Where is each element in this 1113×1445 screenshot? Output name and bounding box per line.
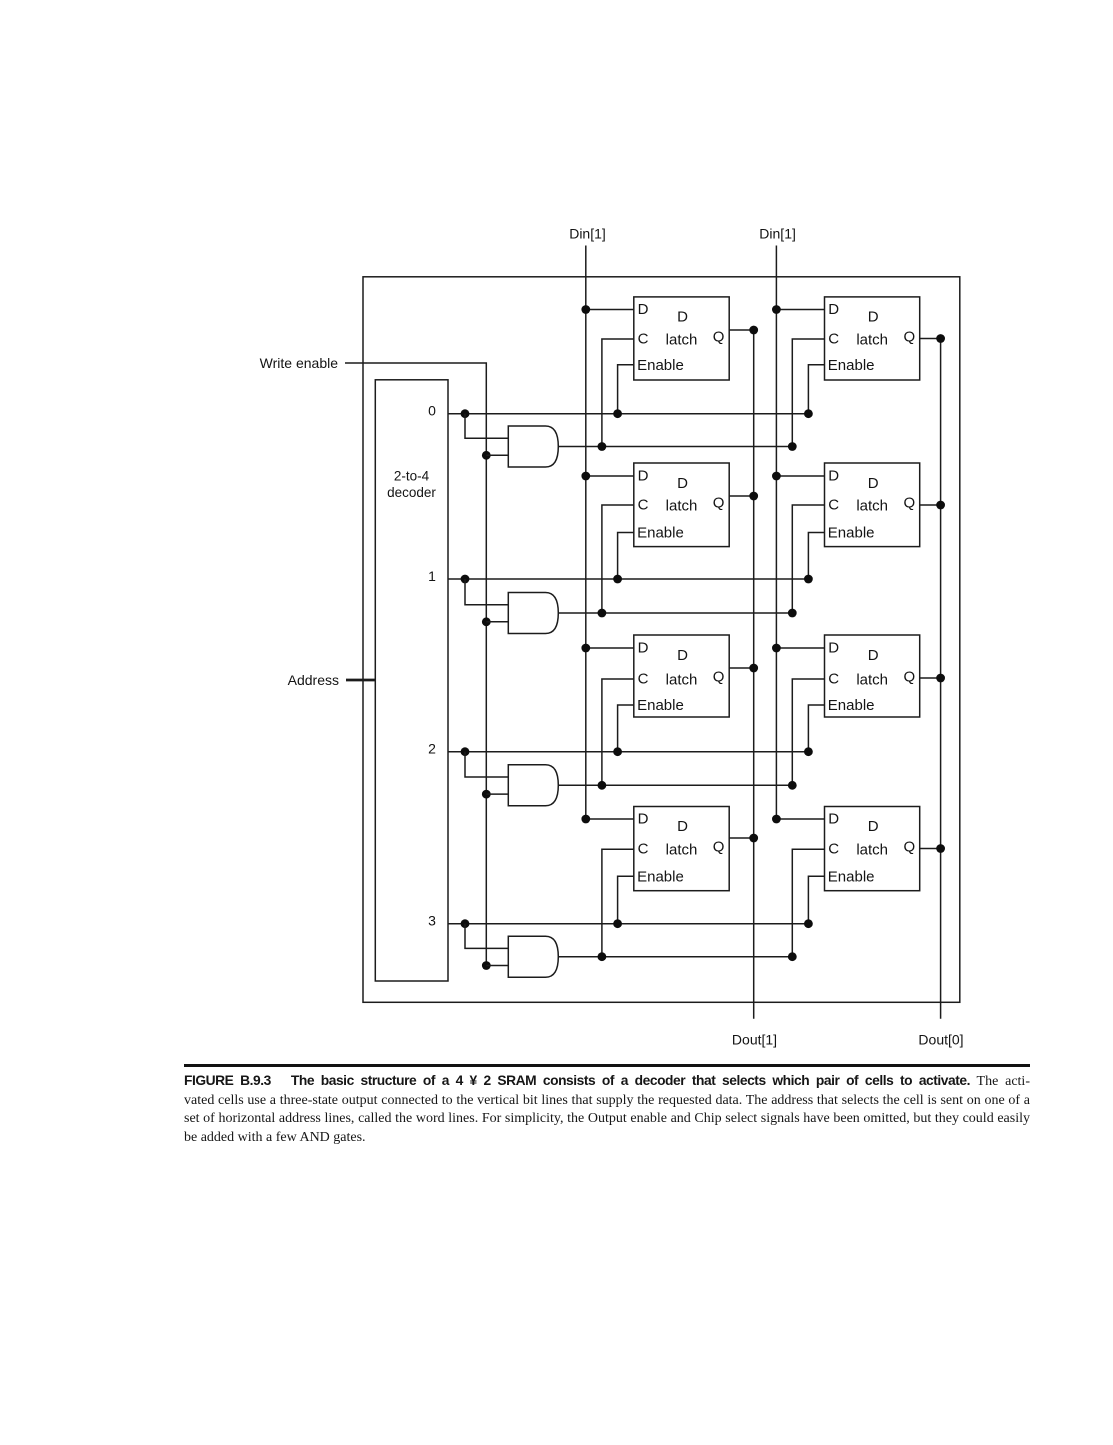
junction: Din tap for U2 [772,305,781,314]
svg-text:decoder: decoder [387,485,436,500]
junction: Din tap for U4 [772,472,781,481]
U6 pin Enable [828,697,875,714]
wire: Din to U1 D [586,309,634,311]
wire: row select to U6 C [792,679,824,785]
svg-text:D: D [638,811,649,828]
wire: row select to U3 C [602,505,634,613]
svg-text:Write enable: Write enable [260,355,339,371]
wire: Din to U4 D [776,475,824,477]
wire: G2 output (row select 1) [558,612,792,614]
wire: U6 Q to Dout [920,677,941,679]
svg-text:D: D [677,647,688,664]
svg-text:Address: Address [288,672,339,688]
svg-text:latch: latch [666,671,698,688]
junction: row select to U4 C [788,609,797,618]
D latch U7 [634,807,729,891]
wire: Din bit line 1 (vertical) [585,246,587,820]
U7 pin C [638,841,649,858]
D latch U4 [825,463,920,547]
U7 pin D [638,811,649,828]
junction: row select to U2 C [788,442,797,451]
U2 pin Enable [828,357,875,374]
wire: word line to U7 Enable [618,876,634,923]
U8 pin Enable [828,869,875,886]
U1 pin Enable [637,357,684,374]
U3 pin Enable [637,525,684,542]
svg-text:D: D [638,468,649,485]
wire: row select to U1 C [602,339,634,447]
U7 pin Q [713,839,725,856]
U3 pin Q [713,495,725,512]
U1 pin C [638,331,649,348]
svg-text:D: D [828,640,839,657]
junction: Din tap for U3 [581,472,590,481]
wire: Din to U2 D [776,309,824,311]
U5 label "D latch" [666,647,698,688]
U1 label "D latch" [666,309,698,349]
junction: row select to U1 C [598,442,607,451]
wire: write enable to G1 input [486,454,508,456]
wire: Din to U8 D [776,818,824,820]
D latch U5 [634,635,729,717]
svg-text:D: D [868,818,879,835]
junction: U4 Q to Dout [936,501,945,510]
U2 pin Q [903,329,915,346]
junction: row select to U8 C [788,952,797,961]
svg-text:2: 2 [428,741,436,757]
svg-text:D: D [868,475,879,492]
svg-text:Enable: Enable [637,525,684,542]
U8 pin Q [903,839,915,856]
svg-text:Enable: Enable [637,697,684,714]
svg-text:Enable: Enable [637,357,684,374]
svg-text:D: D [828,301,839,318]
wire: word line to U4 Enable [808,533,824,580]
svg-text:Q: Q [903,329,915,346]
svg-text:D: D [868,647,879,664]
wire: word line 1 [448,578,808,580]
wire: word line 0 branch to G1 input [465,414,508,439]
svg-text:Q: Q [713,495,725,512]
wire: word line to U8 Enable [808,876,824,923]
wire: word line 3 [448,923,808,925]
junction: U7 Q to Dout [749,834,758,843]
wire: Din to U5 D [586,647,634,649]
D latch U1 [634,297,729,380]
decoder output 1 label [428,568,436,584]
svg-text:latch: latch [666,842,698,859]
junction: write enable to AND G1 [482,451,491,460]
junction: Din tap for U8 [772,815,781,824]
junction: word line to U1 Enable [613,409,622,418]
decoder output 0 label [428,403,436,419]
U1 pin D [638,301,649,318]
wire: word line 1 branch to G2 input [465,579,508,605]
svg-text:Q: Q [903,839,915,856]
svg-text:0: 0 [428,403,436,419]
Din[1] label (right bit line) [759,226,796,242]
junction: Din tap for U1 [581,305,590,314]
U2 label "D latch" [856,309,888,349]
junction: U5 Q to Dout [749,664,758,673]
wire: U8 Q to Dout [920,848,941,850]
AND gate G2 [508,593,558,634]
junction: word line 0 to AND G1 branch [461,409,470,418]
wire: Din to U6 D [776,647,824,649]
wire: write enable to G4 input [486,965,508,967]
wire: word line 2 [448,751,808,753]
wire: row select to U2 C [792,339,824,447]
U7 pin Enable [637,869,684,886]
U4 pin D [828,468,839,485]
svg-text:D: D [868,309,879,326]
Address label [288,672,339,688]
wire: U4 Q to Dout [920,504,941,506]
U5 pin Q [713,669,725,686]
svg-text:Enable: Enable [828,697,875,714]
D latch U3 [634,463,729,547]
svg-text:Q: Q [713,669,725,686]
junction: word line 3 to AND G4 branch [461,919,470,928]
U6 label "D latch" [856,647,888,688]
U7 label "D latch" [666,818,698,859]
wire: U5 Q to Dout [729,667,754,669]
svg-text:C: C [828,331,839,348]
svg-text:C: C [828,497,839,514]
decoder output 3 label [428,913,436,929]
U4 label "D latch" [856,475,888,514]
U5 pin Enable [637,697,684,714]
wire: U7 Q to Dout [729,837,754,839]
U8 pin D [828,811,839,828]
U6 pin Q [903,669,915,686]
svg-text:Enable: Enable [828,525,875,542]
U4 pin Enable [828,525,875,542]
AND gate G1 [508,426,558,467]
wire: G1 output (row select 0) [558,446,792,448]
junction: U6 Q to Dout [936,674,945,683]
svg-text:Q: Q [903,669,915,686]
svg-text:latch: latch [856,331,888,348]
wire: write enable net [345,363,486,966]
junction: U8 Q to Dout [936,844,945,853]
junction: Din tap for U7 [581,815,590,824]
U3 pin C [638,497,649,514]
junction: word line to U8 Enable [804,919,813,928]
U5 pin C [638,671,649,688]
junction: write enable to AND G4 [482,961,491,970]
junction: write enable to AND G3 [482,790,491,799]
wire: word line 2 branch to G3 input [465,752,508,777]
svg-text:latch: latch [856,497,888,514]
U8 pin C [828,841,839,858]
wire: word line 0 [448,413,808,415]
svg-text:C: C [638,497,649,514]
U8 label "D latch" [856,818,888,859]
svg-text:Q: Q [903,495,915,512]
svg-text:2-to-4: 2-to-4 [394,469,430,484]
svg-text:C: C [828,841,839,858]
junction: row select to U5 C [598,781,607,790]
2-to-4 decoder [375,380,448,981]
wire: Dout bit line 1 (vertical) [753,330,755,1019]
junction: word line to U7 Enable [613,919,622,928]
junction: word line to U4 Enable [804,575,813,584]
wire: address input stub [346,679,375,682]
SRAM outer box [363,277,960,1003]
junction: row select to U3 C [598,609,607,618]
wire: word line 3 branch to G4 input [465,924,508,949]
junction: U2 Q to Dout [936,334,945,343]
svg-text:D: D [677,309,688,326]
wire: word line to U6 Enable [808,705,824,752]
junction: row select to U6 C [788,781,797,790]
svg-text:D: D [638,301,649,318]
svg-text:latch: latch [666,331,698,348]
Write enable label [260,355,339,371]
wire: write enable to G2 input [486,621,508,623]
wire: Din to U3 D [586,475,634,477]
svg-text:D: D [638,640,649,657]
Dout[0] label [918,1032,963,1048]
wire: word line to U3 Enable [618,533,634,580]
wire: U2 Q to Dout [920,338,941,340]
junction: U3 Q to Dout [749,492,758,501]
U6 pin D [828,640,839,657]
svg-text:D: D [828,811,839,828]
junction: word line to U2 Enable [804,409,813,418]
wire: Din bit line 0 (vertical) [775,246,777,820]
svg-text:D: D [677,475,688,492]
wire: row select to U4 C [792,505,824,613]
wire: U3 Q to Dout [729,495,754,497]
svg-text:1: 1 [428,568,436,584]
svg-text:Din[1]: Din[1] [569,226,606,242]
svg-text:Q: Q [713,839,725,856]
svg-text:Enable: Enable [828,357,875,374]
wire: row select to U5 C [602,679,634,785]
U3 pin D [638,468,649,485]
svg-text:latch: latch [856,842,888,859]
junction: write enable to AND G2 [482,617,491,626]
wire: G3 output (row select 2) [558,784,792,786]
junction: word line to U3 Enable [613,575,622,584]
U1 pin Q [713,329,725,346]
svg-text:C: C [828,671,839,688]
U4 pin C [828,497,839,514]
figure caption [184,1072,1030,1147]
junction: word line 1 to AND G2 branch [461,575,470,584]
Din[1] label (left bit line) [569,226,606,242]
wire: Din to U7 D [586,818,634,820]
U6 pin C [828,671,839,688]
U5 pin D [638,640,649,657]
D latch U8 [825,807,920,891]
wire: word line to U2 Enable [808,365,824,414]
svg-text:Dout[0]: Dout[0] [918,1032,963,1048]
junction: word line to U6 Enable [804,747,813,756]
junction: U1 Q to Dout [749,326,758,335]
wire: write enable to G3 input [486,793,508,795]
wire: Dout bit line 0 (vertical) [940,339,942,1019]
junction: Din tap for U5 [581,644,590,653]
wire: word line to U5 Enable [618,705,634,752]
U3 label "D latch" [666,475,698,514]
Dout[1] label [732,1032,777,1048]
svg-text:latch: latch [856,671,888,688]
wire: G4 output (row select 3) [558,956,792,958]
svg-text:latch: latch [666,497,698,514]
U4 pin Q [903,495,915,512]
svg-text:3: 3 [428,913,436,929]
wire: row select to U8 C [792,849,824,957]
D latch U2 [825,297,920,380]
svg-text:Din[1]: Din[1] [759,226,796,242]
svg-text:D: D [677,818,688,835]
svg-text:D: D [828,468,839,485]
junction: word line to U5 Enable [613,747,622,756]
svg-text:Dout[1]: Dout[1] [732,1032,777,1048]
svg-text:C: C [638,671,649,688]
D latch U6 [825,635,920,717]
svg-text:C: C [638,841,649,858]
wire: U1 Q to Dout [729,329,754,331]
U2 pin D [828,301,839,318]
AND gate G4 [508,936,558,977]
caption separator rule [184,1064,1030,1067]
svg-text:Enable: Enable [637,869,684,886]
wire: word line to U1 Enable [618,365,634,414]
junction: row select to U7 C [598,952,607,961]
U2 pin C [828,331,839,348]
junction: word line 2 to AND G3 branch [461,747,470,756]
AND gate G3 [508,765,558,806]
svg-text:Q: Q [713,329,725,346]
svg-text:Enable: Enable [828,869,875,886]
junction: Din tap for U6 [772,644,781,653]
wire: row select to U7 C [602,849,634,957]
decoder output 2 label [428,741,436,757]
svg-text:C: C [638,331,649,348]
